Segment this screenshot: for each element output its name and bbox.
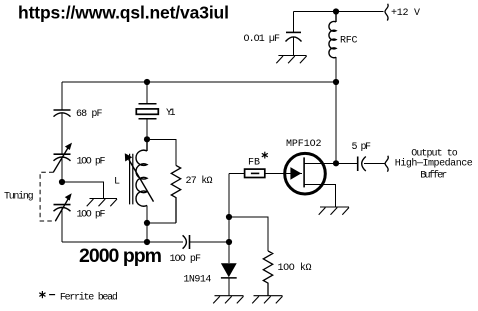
svg-text:High—Impedance: High—Impedance (395, 158, 473, 170)
capacitor 0.01uF (286, 31, 301, 33)
svg-text:O.O1 µF: O.O1 µF (244, 34, 281, 45)
svg-text:Output to: Output to (411, 148, 458, 159)
wire main horizontal rail (62, 81, 336, 83)
node tuning junction (59, 179, 65, 185)
inductor RFC (329, 12, 336, 83)
svg-text:1OO kΩ: 1OO kΩ (278, 262, 312, 274)
resistor R 100 kΩ (263, 251, 272, 296)
wire left column second segment (61, 114, 63, 155)
variable capacitor 100 pF upper (53, 143, 72, 173)
svg-text:2000 ppm: 2000 ppm (79, 245, 162, 267)
wire Y1 top lead (146, 82, 148, 104)
svg-text:1N914: 1N914 (183, 275, 211, 286)
node rail junction below L (144, 239, 150, 245)
node rail Y1 junction (144, 79, 150, 85)
transistor Q1 MPF102 (285, 153, 336, 207)
wire FB left lead (229, 173, 245, 175)
wire +12V top rail (294, 11, 384, 13)
svg-text:5 pF: 5 pF (352, 142, 372, 153)
node L bottom junction (144, 220, 150, 226)
note dash (49, 294, 55, 296)
node 100k junction (226, 214, 232, 220)
ground under 100k (252, 296, 282, 304)
svg-text:1OO pF: 1OO pF (77, 157, 106, 168)
wire 27k bottom link (147, 222, 176, 224)
svg-text:MPF1O2: MPF1O2 (286, 139, 322, 150)
crystal Y1 (136, 104, 158, 119)
gang dashed link tuning (40, 172, 55, 221)
svg-text:Ferrite bead: Ferrite bead (60, 291, 118, 303)
node drain junction (333, 160, 339, 166)
wire left column third segment (61, 157, 63, 182)
wire FB to gate (265, 173, 302, 175)
node diode top junction (226, 239, 232, 245)
terminal output (385, 156, 388, 172)
node RFC bottom junction (333, 79, 339, 85)
svg-text:27 kΩ: 27 kΩ (186, 175, 213, 187)
inductor L (136, 139, 147, 223)
wire drain to 5pF (336, 162, 358, 164)
wire bottom rail left (62, 241, 183, 243)
capacitor 5 pF (358, 157, 366, 172)
ground at tuning node (87, 199, 117, 207)
wire L-27k top link (147, 139, 176, 165)
node L top junction (144, 136, 150, 142)
wire bottom rail right (190, 241, 230, 243)
ground at source (319, 207, 349, 215)
note asterisk ferrite bead (39, 291, 45, 298)
wire left column top segment (61, 82, 63, 110)
wire tuning node to ground (62, 182, 103, 199)
svg-text:+12 V: +12 V (391, 8, 420, 19)
resistor 27 kΩ (171, 165, 180, 223)
svg-text:https://www.qsl.net/va3iul: https://www.qsl.net/va3iul (18, 3, 229, 23)
svg-text:FB: FB (248, 157, 260, 168)
wire L bottom to rail (146, 223, 148, 242)
wire 5pF to output terminal (364, 162, 385, 164)
wire Y1 bottom lead (146, 119, 148, 140)
node top rail junction (333, 8, 339, 14)
terminal +12V (385, 4, 388, 21)
ferrite bead FB (245, 169, 265, 177)
svg-text:Tuning: Tuning (4, 191, 34, 203)
arrow of variable inductor L (129, 159, 154, 201)
wire drain to RFC (335, 82, 337, 163)
asterisk FB marker (262, 152, 268, 159)
wire 0.01uF top lead (293, 12, 295, 33)
svg-text:Buffer: Buffer (420, 170, 447, 182)
capacitor 68 pF (54, 109, 71, 111)
wire 0.01uF ground lead (293, 38, 295, 56)
ground under diode (213, 296, 243, 304)
ground under 0.01uF (276, 56, 306, 64)
svg-text:68 pF: 68 pF (76, 109, 103, 120)
variable capacitor 100 pF lower (54, 193, 72, 221)
svg-text:Y1: Y1 (166, 108, 176, 119)
svg-text:1OO pF: 1OO pF (77, 210, 106, 221)
wire feedback vertical (228, 174, 230, 264)
wire 100k top link (229, 217, 268, 251)
core bars of L (130, 154, 133, 205)
svg-text:1OO pF: 1OO pF (170, 254, 202, 265)
capacitor 100 pF coupling (183, 235, 190, 249)
svg-text:RFC: RFC (340, 35, 358, 46)
svg-text:L: L (114, 177, 120, 188)
wire left column bottom segment (61, 208, 63, 242)
diode D1 1N914 (221, 263, 237, 295)
